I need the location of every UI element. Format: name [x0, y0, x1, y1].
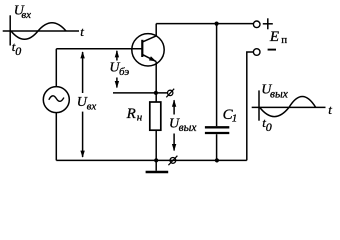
output terminal lower (circle with slash) — [168, 156, 177, 166]
transistor emitter arrowhead — [149, 56, 156, 61]
output terminal upper (circle with slash) — [166, 89, 174, 98]
dimension arrowhead down (U_vx) — [80, 151, 84, 158]
dimension arrowhead down (U_vyx) — [172, 144, 176, 151]
label R_n — [126, 106, 143, 123]
input sine wave — [11, 23, 66, 40]
svg-text:бэ: бэ — [119, 66, 129, 78]
wire: bottom rail — [56, 159, 247, 161]
svg-text:н: н — [137, 111, 143, 123]
label C1 — [223, 107, 238, 125]
svg-text:t: t — [328, 102, 332, 117]
svg-text:вх: вх — [87, 100, 97, 112]
output waveform graph axes (U_vyx vs t) — [252, 90, 326, 120]
capacitor C1 plates — [205, 127, 229, 133]
junction dot (bottom rail / C1) — [215, 158, 219, 162]
AC source sine symbol — [49, 96, 64, 101]
transistor emitter diagonal — [143, 55, 157, 62]
wire: collector to top rail — [155, 24, 157, 36]
svg-text:0: 0 — [15, 44, 21, 58]
dimension arrow U_be lower shaft — [116, 78, 118, 88]
svg-text:R: R — [126, 106, 136, 122]
svg-text:E: E — [269, 29, 279, 45]
wire: emitter down to node — [155, 62, 157, 93]
AC source G1 circle — [43, 87, 69, 113]
wire: C1 bottom lead — [216, 134, 218, 160]
svg-text:вых: вых — [270, 88, 289, 100]
junction dot (top rail / C1) — [215, 22, 219, 26]
wire: source to base riser — [55, 49, 57, 87]
label U_vyx (dimension) — [169, 116, 197, 134]
dimension arrow U_vyx lower shaft — [173, 134, 175, 151]
ground stub — [155, 160, 157, 170]
supply + terminal circle — [253, 21, 260, 28]
wire: top rail (collector to + terminal) — [156, 23, 253, 25]
wire: source bottom to ground rail — [55, 113, 57, 161]
svg-text:1: 1 — [232, 112, 238, 124]
dimension arrowhead up (U_vyx) — [172, 100, 176, 107]
svg-text:t: t — [80, 24, 84, 39]
dimension arrow U_vx shaft — [82, 52, 84, 157]
label U_vx (dimension) — [76, 93, 99, 112]
dimension arrowhead up (U_be) — [115, 50, 119, 57]
svg-text:0: 0 — [266, 120, 272, 134]
plus sign — [263, 18, 273, 29]
ground bar — [146, 171, 169, 174]
svg-text:вых: вых — [179, 122, 198, 134]
dimension arrow U_vyx upper shaft — [173, 100, 175, 114]
wire: C1 top lead — [216, 24, 218, 127]
svg-text:вх: вх — [21, 9, 31, 21]
dimension arrow U_be upper shaft — [116, 51, 118, 61]
minus sign — [268, 49, 276, 51]
junction dot (bottom rail / ground) — [154, 158, 158, 162]
wire: resistor bottom to rail — [155, 130, 157, 160]
label t0 (input graph) — [12, 39, 21, 58]
output sine wave — [260, 97, 316, 117]
label t0 (output graph) — [262, 115, 271, 134]
resistor R_n body — [150, 102, 161, 130]
junction dot (emitter node) — [154, 91, 158, 95]
supply - terminal circle — [253, 49, 260, 56]
transistor VT1 circle — [132, 34, 164, 66]
dimension arrowhead down (U_be) — [115, 81, 119, 88]
wire: - terminal to bottom rail — [247, 52, 253, 160]
wire: node to resistor top — [155, 93, 157, 102]
input waveform graph axes (U_vx vs t) — [3, 15, 79, 45]
transistor collector diagonal — [143, 36, 157, 42]
transistor base bar — [141, 40, 143, 57]
label U_vyx (output graph) — [261, 82, 288, 100]
label E_p — [269, 29, 287, 46]
wire: emitter node horizontal (to output terminal) — [113, 92, 168, 94]
label U_vx (input graph) — [14, 3, 31, 21]
svg-text:п: п — [281, 34, 287, 46]
dimension arrowhead up (U_vx) — [80, 51, 84, 58]
label U_be — [109, 60, 129, 78]
wire: base wire (top horizontal from source to transistor base) — [56, 48, 142, 50]
